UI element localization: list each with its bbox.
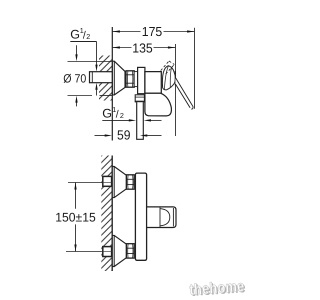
wire dim 135 line bbox=[112, 47, 175, 49]
capacitor outlet pipe (top view) bbox=[137, 102, 144, 139]
resistor hex union nut (top view) bbox=[126, 71, 134, 87]
svg-text:135: 135 bbox=[132, 40, 153, 55]
watermark thehome bbox=[189, 278, 246, 300]
capacitor lower pipe stub (bottom view) bbox=[103, 247, 112, 257]
node dim 175 right arrow bbox=[187, 30, 194, 32]
node wall face line (bottom view) bbox=[111, 156, 113, 272]
svg-text:175: 175 bbox=[142, 24, 163, 39]
capacitor upper pipe stub (bottom view) bbox=[103, 176, 112, 186]
wire dia70 top extension line bbox=[68, 61, 113, 63]
svg-text:59: 59 bbox=[117, 127, 131, 142]
wire wall hatch (bottom view) bbox=[101, 156, 112, 272]
node lever knob front face bbox=[174, 71, 176, 85]
wire wall hatch (top view) bbox=[99, 56, 112, 101]
wire dim 150 upper extension line bbox=[68, 182, 102, 184]
node dim 150 down arrow bbox=[74, 245, 76, 252]
svg-text:150±15: 150±15 bbox=[55, 210, 96, 224]
wire dia70 bottom extension line bbox=[68, 95, 93, 97]
node G 1/2 lower counter arrow bbox=[144, 119, 151, 121]
node dim 59 left arrow bbox=[105, 134, 112, 136]
node dia70 top arrow bbox=[76, 45, 78, 55]
wire G 1/2 upper leader underline bbox=[70, 41, 96, 43]
svg-text:G: G bbox=[70, 28, 80, 42]
node dim 150 up arrow bbox=[74, 183, 76, 190]
wire dim 59 left tail bbox=[95, 135, 107, 137]
capacitor washer between nut and block bbox=[134, 72, 137, 87]
svg-text:G: G bbox=[102, 106, 112, 120]
capacitor inlet pipe stub (top view) bbox=[90, 72, 113, 83]
transistor lever knob (top view) bbox=[162, 66, 175, 90]
diode upper escutcheon cone (bottom view) bbox=[112, 167, 126, 198]
op-amp mixer body lower boot (top view) bbox=[145, 93, 172, 116]
op-amp mixer body upper part (top view) bbox=[145, 72, 161, 94]
wire dim 175 line bbox=[112, 31, 194, 33]
transistor lever blade (top view) bbox=[175, 78, 193, 110]
node dim 59 right arrow bbox=[140, 134, 147, 136]
svg-text:2: 2 bbox=[120, 111, 124, 120]
node wall face line (top view) bbox=[111, 27, 113, 141]
resistor lower hex nut (bottom view) bbox=[126, 244, 134, 258]
node dia70 bottom arrow bbox=[76, 102, 78, 106]
node G 1/2 arrow down to pipe bbox=[95, 65, 97, 72]
node dim 135 left arrow bbox=[113, 46, 120, 48]
wire dim 150 vertical line lower bbox=[75, 224, 77, 251]
svg-text:Ø 70: Ø 70 bbox=[63, 72, 86, 86]
node G 1/2 arrow up to pipe bbox=[95, 83, 97, 90]
wire G 1/2 upper leader vertical bbox=[96, 42, 98, 67]
node dim 175 left arrow bbox=[113, 30, 120, 32]
wire lever knob facet lines bbox=[164, 66, 171, 90]
wire dim 135 right extension line bbox=[175, 44, 177, 136]
wire G 1/2 lower vertical continuation bbox=[96, 89, 98, 96]
capacitor outlet collar bbox=[135, 95, 144, 102]
resistor upper hex nut (bottom view) bbox=[126, 175, 134, 189]
transistor lever knob end-on (bottom view) bbox=[147, 207, 176, 228]
wire dim 150 vertical line upper bbox=[75, 183, 77, 209]
diode escutcheon cone (top view) bbox=[112, 61, 125, 95]
node dim 135 right arrow bbox=[168, 46, 175, 48]
transistor lever alternate position (dashed) bbox=[161, 61, 175, 74]
resistor inlet block (top view) bbox=[138, 67, 145, 93]
wire dim 175 right extension line bbox=[194, 28, 196, 109]
node G 1/2 lower arrow right bbox=[129, 119, 136, 121]
op-amp body slab (bottom view) bbox=[135, 173, 146, 260]
svg-text:/: / bbox=[116, 108, 119, 120]
wire G 1/2 lower leader bbox=[102, 119, 130, 121]
wire dim 150 lower extension line bbox=[66, 251, 102, 253]
diode lower escutcheon cone (bottom view) bbox=[112, 235, 126, 266]
svg-text:2: 2 bbox=[86, 32, 90, 41]
